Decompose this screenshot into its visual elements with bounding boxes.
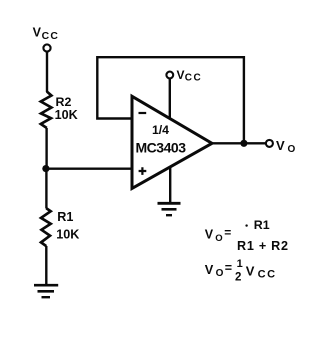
ground (below R1) bbox=[34, 285, 58, 297]
terminal VCC (op-amp power) bbox=[166, 72, 173, 79]
node A junction dot bbox=[42, 165, 49, 172]
wire op-amp ground pin lead bbox=[169, 166, 171, 203]
wire node A to op-amp + input bbox=[47, 167, 132, 169]
svg-text:CC: CC bbox=[258, 268, 277, 280]
wire VCC power pin lead bbox=[169, 78, 171, 119]
wire node A down to R1 top bbox=[45, 169, 47, 209]
op-amp inverting input minus sign bbox=[139, 112, 147, 114]
wire VCC terminal to R2 top bbox=[46, 52, 48, 92]
svg-text:CC: CC bbox=[42, 31, 60, 42]
svg-text:2: 2 bbox=[235, 272, 241, 284]
svg-text:O: O bbox=[216, 268, 224, 279]
svg-text:=: = bbox=[225, 261, 232, 275]
svg-text:1/4: 1/4 bbox=[152, 123, 169, 137]
ground (op-amp power return) bbox=[158, 203, 181, 215]
op-amp non-inverting input plus sign bbox=[139, 167, 147, 175]
svg-text:R2: R2 bbox=[56, 95, 72, 109]
wire feedback: inverting input, left leg, top run, right leg to output node bbox=[97, 57, 244, 141]
svg-text:CC: CC bbox=[185, 72, 202, 83]
svg-text:V: V bbox=[205, 227, 214, 241]
wire op-amp output to terminal VO bbox=[212, 142, 266, 144]
svg-text:O: O bbox=[288, 144, 296, 155]
svg-text:R1: R1 bbox=[57, 210, 73, 224]
terminal VO output bbox=[266, 140, 273, 147]
terminal VCC (top-left supply) bbox=[43, 44, 50, 51]
svg-text:MC3403: MC3403 bbox=[136, 139, 187, 155]
svg-text:O: O bbox=[215, 233, 222, 244]
svg-text:V: V bbox=[246, 264, 255, 279]
svg-text:V: V bbox=[205, 262, 214, 277]
wire R1 bottom to ground bbox=[45, 246, 47, 285]
wire R2 bottom to node A bbox=[45, 128, 47, 169]
svg-text:R1 + R2: R1 + R2 bbox=[237, 239, 288, 253]
resistor R2 bbox=[41, 92, 52, 129]
op-amp U1 1/4 MC3403 triangle bbox=[132, 96, 212, 188]
node output junction dot bbox=[240, 140, 247, 147]
resistor R1 bbox=[41, 208, 51, 246]
svg-text:10K: 10K bbox=[55, 108, 78, 122]
svg-text:V: V bbox=[33, 26, 42, 40]
formula VO = R1/(R1+R2) bbox=[205, 218, 288, 253]
svg-text:V: V bbox=[177, 68, 185, 82]
svg-text:10K: 10K bbox=[56, 228, 79, 242]
svg-text:R1: R1 bbox=[254, 218, 270, 232]
svg-text:V: V bbox=[276, 138, 285, 153]
svg-text:1: 1 bbox=[237, 258, 243, 270]
formula VO = 1/2 VCC bbox=[205, 258, 277, 284]
svg-text:=: = bbox=[224, 225, 231, 239]
